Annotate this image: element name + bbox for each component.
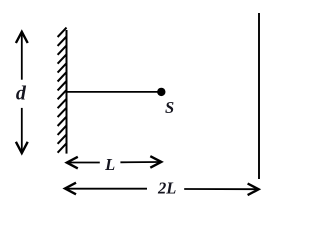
wire from wall to source <box>67 91 158 93</box>
screen (right vertical line) <box>258 13 260 179</box>
svg-text:2L: 2L <box>157 179 176 198</box>
svg-text:S: S <box>165 98 174 117</box>
svg-text:L: L <box>104 155 115 174</box>
dimension arrow L (horizontal double arrow) <box>67 156 162 168</box>
source point dot <box>157 88 165 96</box>
dimension arrow d (vertical double arrow) <box>16 32 28 153</box>
barrier wall (hatched) <box>58 28 67 154</box>
svg-text:d: d <box>16 83 27 105</box>
dimension arrow 2L (horizontal double arrow) <box>65 183 259 195</box>
